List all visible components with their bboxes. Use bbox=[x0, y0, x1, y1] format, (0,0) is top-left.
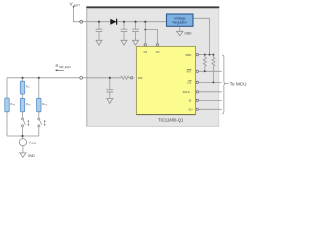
svg-text:BATT: BATT bbox=[74, 4, 81, 8]
svg-text:SI: SI bbox=[189, 99, 192, 103]
svg-text:IN0: IN0 bbox=[138, 76, 143, 80]
svg-text:TIC12400-Q1: TIC12400-Q1 bbox=[158, 118, 184, 123]
svg-text:Regulator: Regulator bbox=[172, 20, 188, 24]
svg-text:SW_EQU: SW_EQU bbox=[59, 65, 71, 69]
svg-text:R: R bbox=[56, 63, 59, 68]
svg-text:P3: P3 bbox=[45, 105, 48, 107]
svg-text:P1: P1 bbox=[13, 105, 16, 107]
svg-text:VDD: VDD bbox=[185, 53, 191, 57]
svg-text:INT: INT bbox=[187, 70, 192, 74]
svg-text:GND: GND bbox=[28, 154, 36, 158]
svg-text:VS: VS bbox=[143, 50, 147, 54]
svg-text:To MCU: To MCU bbox=[230, 81, 248, 86]
svg-text:SCLK: SCLK bbox=[182, 90, 190, 94]
svg-text:OFFS: OFFS bbox=[31, 143, 37, 145]
svg-text:VS: VS bbox=[156, 50, 160, 54]
svg-text:GND: GND bbox=[184, 32, 192, 36]
svg-text:CS: CS bbox=[187, 81, 191, 85]
svg-text:S: S bbox=[28, 87, 30, 89]
svg-text:P2: P2 bbox=[28, 105, 31, 107]
